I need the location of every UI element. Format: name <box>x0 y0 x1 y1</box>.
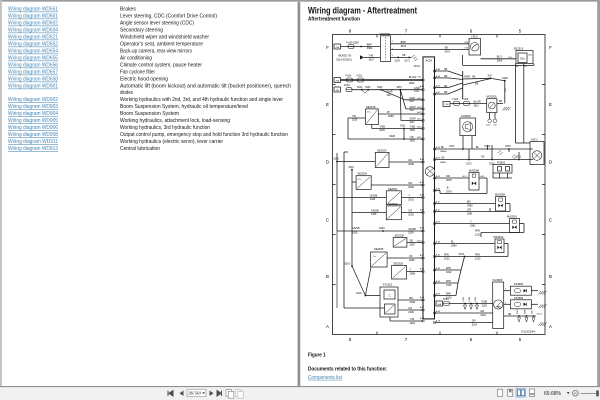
wire BL/Y 2905 <box>481 58 517 60</box>
node circle on ACM <box>425 167 435 177</box>
svg-text:OR: OR <box>408 182 412 185</box>
svg-text:Boom Suspension System, hydrau: Boom Suspension System, hydraulic oil te… <box>120 104 248 110</box>
svg-text:289 / 5424: 289 / 5424 <box>189 391 202 396</box>
wire Y 2098 <box>407 271 423 273</box>
V dip wire <box>362 90 365 94</box>
svg-text:1026: 1026 <box>352 232 358 235</box>
svg-text:SE2513: SE2513 <box>514 46 524 50</box>
svg-text:GR: GR <box>472 320 476 323</box>
svg-text:1026: 1026 <box>370 198 376 201</box>
valve MA2508 <box>469 173 479 191</box>
relay K23505 <box>510 286 531 295</box>
svg-text:B: B <box>326 274 329 279</box>
right icon single page <box>498 389 503 396</box>
svg-text:Wiring diagram WD905: Wiring diagram WD905 <box>8 118 58 124</box>
svg-text:MA2510: MA2510 <box>507 215 517 219</box>
wire Y/SB 1025 S311 <box>371 125 373 129</box>
relay K23506 <box>510 300 531 309</box>
sensor SE2526 <box>392 266 407 280</box>
svg-text:1025: 1025 <box>371 213 377 216</box>
svg-text:Output control pump, emergency: Output control pump, emergency stop and … <box>120 132 288 138</box>
svg-text:3117: 3117 <box>414 90 420 93</box>
svg-text:Working hydraulics, 3rd hydrau: Working hydraulics, 3rd hydraulic functi… <box>120 125 210 131</box>
svg-text:GN: GN <box>408 210 412 213</box>
svg-text:diodes: diodes <box>120 90 133 96</box>
svg-text:Wiring diagram WD655: Wiring diagram WD655 <box>8 56 58 62</box>
svg-text:SB: SB <box>410 240 414 243</box>
svg-text:SE2521: SE2521 <box>388 187 398 191</box>
svg-text:Boom Suspension System: Boom Suspension System <box>120 111 179 117</box>
right icon scroll pages <box>530 389 535 393</box>
svg-text:C: C <box>389 293 391 297</box>
svg-text:Operator's seat, ambient tempe: Operator's seat, ambient temperature <box>120 42 203 48</box>
toolbar nav first-page button <box>168 391 173 396</box>
svg-text:Brakes: Brakes <box>120 7 136 13</box>
svg-text:GN: GN <box>408 159 412 162</box>
svg-text:Wiring diagram WD903: Wiring diagram WD903 <box>8 104 58 110</box>
wire GN/SB 1026 to SE2521 <box>337 197 386 199</box>
svg-text:Wiring diagram WD913: Wiring diagram WD913 <box>8 146 58 152</box>
sensor SE2515 circle right <box>530 142 544 165</box>
wire GN/R bus with junctions <box>352 89 423 91</box>
svg-text:22H: 22H <box>445 104 449 106</box>
SE2513 drop wires <box>515 64 517 144</box>
schematic frame <box>326 29 552 343</box>
left pane: list of wiring-diagram links <box>8 7 291 153</box>
wire VD 2096 <box>387 257 423 259</box>
svg-text:S310: S310 <box>349 167 355 169</box>
wire R/W 1022 loop2 <box>504 243 508 245</box>
svg-text:SE2520: SE2520 <box>377 148 387 152</box>
svg-text:Fan cyclone filter: Fan cyclone filter <box>120 70 155 76</box>
svg-text:MA2509: MA2509 <box>495 193 505 197</box>
wire CAN BL S171 S219 S379 <box>435 148 534 150</box>
svg-text:S172: S172 <box>404 60 410 63</box>
connector GW2506 <box>380 36 390 62</box>
wire Y/R 1025 to SE2519 <box>348 117 365 119</box>
svg-text:Wiring diagram WD621: Wiring diagram WD621 <box>8 35 58 41</box>
zoom out button <box>573 390 579 396</box>
svg-text:SB: SB <box>472 76 476 79</box>
svg-text:JP: JP <box>387 111 390 114</box>
svg-text:1025: 1025 <box>410 129 416 132</box>
svg-text:S372: S372 <box>459 253 465 256</box>
svg-text:CU3905: CU3905 <box>493 278 503 282</box>
svg-text:Components list: Components list <box>308 375 343 381</box>
wire OR 2090 <box>371 184 423 186</box>
svg-text:CU3502: CU3502 <box>461 114 471 118</box>
sensor SE2525 <box>371 252 388 267</box>
svg-text:FO803: FO803 <box>497 161 506 165</box>
wire JP 2088 <box>378 113 423 115</box>
junction S47 <box>463 77 491 80</box>
fuse FU21 <box>358 78 364 82</box>
svg-text:S308: S308 <box>389 135 395 138</box>
svg-text:Y/SB: Y/SB <box>379 126 385 129</box>
toolbar nav prev button <box>180 391 184 396</box>
svg-text:FX1021: FX1021 <box>383 282 393 286</box>
svg-text:OR: OR <box>446 175 450 178</box>
svg-text:SB: SB <box>475 82 479 85</box>
svg-text:S171: S171 <box>449 145 455 148</box>
svg-text:2980: 2980 <box>467 205 473 208</box>
svg-text:S300: S300 <box>334 159 340 161</box>
svg-text:Y/W: Y/W <box>369 54 374 57</box>
svg-text:V1132194: V1132194 <box>521 330 535 334</box>
svg-text:ACM: ACM <box>426 59 433 63</box>
svg-text:SB: SB <box>499 100 503 103</box>
wire BL/GR 2912 <box>450 102 487 104</box>
svg-text:69.68%: 69.68% <box>544 391 562 397</box>
ECU ACM U-ACM <box>423 57 435 319</box>
svg-text:S47: S47 <box>488 75 493 78</box>
toolbar nav next button <box>210 391 214 396</box>
svg-text:FU93: FU93 <box>344 85 350 87</box>
ground bus fan S396 S47 S490 <box>435 70 449 72</box>
svg-text:VD: VD <box>481 156 485 159</box>
svg-text:2912: 2912 <box>474 104 480 107</box>
svg-text:SB: SB <box>444 75 448 78</box>
svg-text:WD605.7 B: WD605.7 B <box>338 54 351 57</box>
svg-text:R/W: R/W <box>446 267 452 270</box>
svg-text:Secondary steering: Secondary steering <box>120 28 163 34</box>
svg-text:A: A <box>549 324 552 329</box>
valve MA2509 <box>496 197 506 212</box>
svg-text:GN/SB: GN/SB <box>371 210 379 213</box>
svg-text:Wiring diagram WD654: Wiring diagram WD654 <box>8 49 58 55</box>
svg-text:FU24: FU24 <box>346 75 352 77</box>
wire GR 2114 <box>435 322 493 324</box>
svg-text:S336: S336 <box>365 87 371 89</box>
wire BN 2099 <box>398 299 423 301</box>
sensor SE2513 NOx <box>516 51 533 64</box>
svg-text:S396: S396 <box>464 76 470 79</box>
wire Y 2982 <box>435 223 510 225</box>
svg-text:2087: 2087 <box>410 244 416 247</box>
svg-text:S316: S316 <box>345 264 351 266</box>
fuse FU30 <box>348 45 354 49</box>
svg-text:S362: S362 <box>377 87 383 89</box>
pump motor MO2500 <box>487 99 497 113</box>
svg-text:OR: OR <box>467 209 471 212</box>
svg-text:1022: 1022 <box>444 258 450 261</box>
wire SB S126 S172 <box>391 56 412 58</box>
toolbar page-mode icons <box>226 390 232 397</box>
wire R/W 1022 return <box>520 223 525 225</box>
svg-text:3117: 3117 <box>410 121 416 124</box>
svg-text:3662: 3662 <box>409 82 415 85</box>
fuse FU84 <box>444 302 450 306</box>
wire CAN VD S172 S219 S371 <box>435 159 534 161</box>
svg-text:F: F <box>326 45 329 50</box>
wire R/W 1022 b <box>435 269 462 271</box>
svg-text:1022: 1022 <box>475 258 481 261</box>
svg-text:DAW/H: DAW/H <box>440 150 447 153</box>
svg-text:Y/W: Y/W <box>410 318 415 321</box>
junction S310 <box>351 169 353 171</box>
svg-text:2088: 2088 <box>388 115 394 118</box>
zoom slider <box>581 392 600 394</box>
wire GN 2089 <box>389 161 423 163</box>
svg-text:E: E <box>549 102 552 107</box>
svg-text:Wiring diagram WD658: Wiring diagram WD658 <box>8 77 58 83</box>
svg-text:S379: S379 <box>505 145 511 148</box>
connector 30H row E <box>334 87 341 92</box>
sensor SE2522 <box>386 206 401 220</box>
svg-text:S267: S267 <box>397 87 403 89</box>
SB ground chain S247 S248 S22 <box>504 315 536 317</box>
sensor unit FX1021 <box>380 287 398 317</box>
svg-text:DAW/L: DAW/L <box>440 161 447 164</box>
twisted pair marks CAN <box>498 150 501 153</box>
schematic drawing <box>326 29 552 343</box>
svg-text:R/W: R/W <box>475 230 481 233</box>
wire Y 2091 <box>401 197 423 199</box>
toolbar nav last-page button <box>217 391 222 396</box>
svg-text:SB: SB <box>444 68 448 71</box>
sensor SE2519 <box>365 109 378 125</box>
svg-text:Central lubrication: Central lubrication <box>120 146 160 152</box>
svg-text:Wiring diagram WD601: Wiring diagram WD601 <box>8 14 58 20</box>
svg-text:NOx: NOx <box>509 57 513 59</box>
svg-text:S/4.1: S/4.1 <box>505 88 507 92</box>
junction S300 <box>336 161 338 163</box>
fuse FU29 <box>464 101 470 105</box>
fuse FU93 <box>346 88 352 92</box>
svg-text:GW2506: GW2506 <box>380 32 391 36</box>
svg-text:1022: 1022 <box>446 271 452 274</box>
wire BL 2984 <box>435 243 496 245</box>
fuse FU24 <box>347 78 353 82</box>
svg-text:3674: 3674 <box>401 45 407 48</box>
junction S318 with V wires <box>365 295 367 297</box>
connector 20A row F2 <box>334 78 341 83</box>
twisted pair marks and 31IC1 <box>412 55 415 58</box>
wire Y/R 1025 S308 <box>403 129 405 140</box>
svg-text:Automatic lift (boom kickout: Automatic lift (boom kickout) and automa… <box>120 84 291 90</box>
svg-text:Wiring diagram WD657: Wiring diagram WD657 <box>8 70 58 76</box>
control unit CU3905 <box>493 282 504 329</box>
wire R/W 1022 c <box>435 282 459 284</box>
svg-text:3117: 3117 <box>409 100 415 103</box>
wire OR 2981 <box>435 211 491 213</box>
wire 2979 loop <box>435 190 441 192</box>
fuse holder FO803 <box>493 165 512 174</box>
drops from CAN to FO803 <box>487 145 489 149</box>
svg-text:BNP: BNP <box>401 41 406 44</box>
valve MA2510 <box>510 219 520 233</box>
wire R/W 1022 d <box>435 295 457 297</box>
svg-text:S316: S316 <box>357 87 363 89</box>
svg-text:Wiring diagram WD902: Wiring diagram WD902 <box>8 97 58 103</box>
svg-text:3117: 3117 <box>410 109 416 112</box>
svg-text:R/W: R/W <box>446 280 452 283</box>
wire GR 2113 <box>435 312 493 314</box>
control unit CU3502 <box>460 118 476 136</box>
svg-text:Electric hood opening: Electric hood opening <box>120 77 168 83</box>
svg-text:1025: 1025 <box>379 129 385 132</box>
wire SB 2087 <box>407 242 423 244</box>
svg-text:SE2525: SE2525 <box>374 247 384 251</box>
page number input <box>187 389 206 396</box>
svg-text:MA2512: MA2512 <box>494 235 504 239</box>
svg-text:Lever steering, CDC (Comfort D: Lever steering, CDC (Comfort Drive Contr… <box>120 14 217 20</box>
GN/R fan to ACM pins <box>381 90 405 100</box>
junction bar S396 <box>462 71 464 99</box>
left loop wires rows B-A <box>343 152 345 308</box>
wire G/SB 3135 with K226 K228 K229 taps <box>450 303 494 305</box>
valve MA2512 <box>495 239 504 253</box>
svg-text:2978: 2978 <box>446 179 452 182</box>
svg-text:2100: 2100 <box>408 311 414 314</box>
svg-text:30H: 30H <box>335 90 339 92</box>
wire BN 2980 <box>435 203 496 205</box>
MO2500 drop wires to ring terminals <box>489 113 491 120</box>
svg-text:2979: 2979 <box>446 191 452 194</box>
svg-text:SE2522: SE2522 <box>388 202 398 206</box>
svg-text:1022: 1022 <box>475 234 481 237</box>
svg-text:SB: SB <box>402 54 406 57</box>
svg-text:S126: S126 <box>394 60 400 63</box>
svg-text:FU29: FU29 <box>463 99 469 101</box>
svg-text:I-ECU: I-ECU <box>531 139 538 142</box>
wires CU3905 to relays <box>504 290 511 292</box>
svg-text:S490: S490 <box>502 77 508 80</box>
svg-text:1022: 1022 <box>446 284 452 287</box>
svg-text:S293: S293 <box>379 227 385 230</box>
svg-text:A: A <box>326 324 329 329</box>
svg-text:2091: 2091 <box>408 199 414 202</box>
svg-text:SB: SB <box>444 91 448 94</box>
svg-text:SE2526: SE2526 <box>394 262 404 266</box>
svg-text:FU21: FU21 <box>357 75 363 77</box>
connector 30A <box>436 301 443 306</box>
svg-text:Climate control system, pause: Climate control system, pause heater <box>120 63 202 69</box>
svg-text:E: E <box>326 102 329 107</box>
svg-text:2973: 2973 <box>445 51 451 54</box>
svg-text:3135: 3135 <box>481 304 487 307</box>
svg-text:Windshield wiper and windshiel: Windshield wiper and windshield washer <box>120 35 209 41</box>
svg-text:FU84: FU84 <box>443 299 449 301</box>
sensor SE2524 <box>356 176 371 190</box>
svg-text:S172: S172 <box>466 162 472 165</box>
svg-text:MA2508: MA2508 <box>469 169 479 173</box>
svg-text:GN/SB: GN/SB <box>370 195 378 198</box>
wire GN/SB 1025 to SE2522 <box>352 212 386 214</box>
junction S372 <box>435 256 465 258</box>
svg-text:2096: 2096 <box>409 259 415 262</box>
diagonal R/W bus <box>461 257 465 271</box>
svg-text:S114 (K2501): S114 (K2501) <box>336 58 351 61</box>
svg-text:FU30 S358: FU30 S358 <box>347 42 360 45</box>
svg-text:Working hydraulics, attachment: Working hydraulics, attachment lock, loa… <box>120 118 230 124</box>
svg-text:SB: SB <box>444 85 448 88</box>
svg-text:GN: GN <box>408 307 412 310</box>
svg-text:OD: OD <box>494 125 498 127</box>
svg-text:Wiring diagram WD551: Wiring diagram WD551 <box>8 7 58 13</box>
svg-text:S311: S311 <box>400 124 406 127</box>
ACM pin ticks <box>422 79 424 81</box>
connector 22H <box>443 102 450 107</box>
svg-text:2098: 2098 <box>410 273 416 276</box>
svg-text:SB: SB <box>508 313 512 316</box>
svg-text:GR: GR <box>480 310 484 313</box>
connector 22A <box>334 44 341 49</box>
svg-text:SB: SB <box>445 47 449 50</box>
svg-text:R/W: R/W <box>475 254 481 257</box>
svg-text:BL/GR: BL/GR <box>409 76 417 79</box>
svg-text:Wiring diagram WD604: Wiring diagram WD604 <box>8 28 58 34</box>
svg-text:2114: 2114 <box>472 324 478 327</box>
junction S490 <box>490 78 504 80</box>
left vertical Y/R feed <box>347 118 349 139</box>
wire Y/W 1024 <box>389 317 391 321</box>
wire GN 2100 <box>398 309 423 311</box>
wire OR 2978 <box>435 177 470 179</box>
svg-text:MO2500: MO2500 <box>487 95 498 99</box>
svg-text:BL/GR: BL/GR <box>474 100 481 103</box>
svg-text:31IC1: 31IC1 <box>537 314 543 316</box>
wire GN/SB 1026 S293 <box>337 230 423 232</box>
svg-text:Y/R: Y/R <box>352 115 356 118</box>
svg-text:B: B <box>549 274 552 279</box>
frame column ticks <box>376 35 378 38</box>
svg-text:VD: VD <box>409 255 413 258</box>
ECU I-ECU <box>469 39 481 56</box>
svg-text:K23505: K23505 <box>514 282 524 286</box>
svg-text:1025: 1025 <box>352 119 358 122</box>
svg-text:2089: 2089 <box>408 163 414 166</box>
junction S316 lower <box>351 265 353 267</box>
right icon bookmark page <box>508 389 513 396</box>
svg-text:Angle sensor lever steering (C: Angle sensor lever steering (CDC) <box>120 21 194 27</box>
svg-text:Working hydraulics (electric s: Working hydraulics (electric servo), lev… <box>120 139 223 145</box>
svg-text:3617: 3617 <box>369 58 375 61</box>
svg-text:R/W: R/W <box>444 254 450 257</box>
svg-text:Wiring diagram WD656: Wiring diagram WD656 <box>8 63 58 69</box>
svg-text:2092: 2092 <box>408 214 414 217</box>
svg-text:G/SB: G/SB <box>481 300 487 303</box>
svg-text:BN: BN <box>467 201 471 204</box>
svg-text:2982: 2982 <box>470 225 476 228</box>
svg-text:SE2519: SE2519 <box>366 105 376 109</box>
svg-text:.B: .B <box>446 187 449 190</box>
svg-text:Aftertreatment function: Aftertreatment function <box>308 16 360 22</box>
svg-text:S318: S318 <box>356 293 362 295</box>
svg-text:K23506: K23506 <box>514 296 524 300</box>
svg-text:Figure 1: Figure 1 <box>308 353 326 359</box>
svg-text:2113: 2113 <box>480 314 486 317</box>
svg-text:3682: 3682 <box>367 47 373 50</box>
svg-text:Air conditioning: Air conditioning <box>120 56 152 62</box>
sensor SE2521 <box>386 191 401 205</box>
wire SB 2973 to I-ECU <box>391 49 470 51</box>
svg-text:1025: 1025 <box>410 139 416 142</box>
svg-text:Wiring diagram WD652: Wiring diagram WD652 <box>8 42 58 48</box>
svg-text:GN/SB: GN/SB <box>408 228 416 231</box>
svg-text:A:11: A:11 <box>529 54 533 57</box>
svg-text:SE2524: SE2524 <box>358 172 368 176</box>
svg-text:Wiring diagram WD908: Wiring diagram WD908 <box>8 132 58 138</box>
svg-text:C: C <box>326 218 329 223</box>
CAN stub S172 vertical <box>468 149 470 160</box>
svg-text:2981: 2981 <box>467 213 473 216</box>
svg-text:BN: BN <box>410 297 414 300</box>
svg-text:D: D <box>549 160 552 165</box>
svg-text:GN/SB: GN/SB <box>352 227 360 230</box>
svg-text:Wiring diagram WD911: Wiring diagram WD911 <box>8 139 58 145</box>
svg-text:VD: VD <box>441 157 445 160</box>
